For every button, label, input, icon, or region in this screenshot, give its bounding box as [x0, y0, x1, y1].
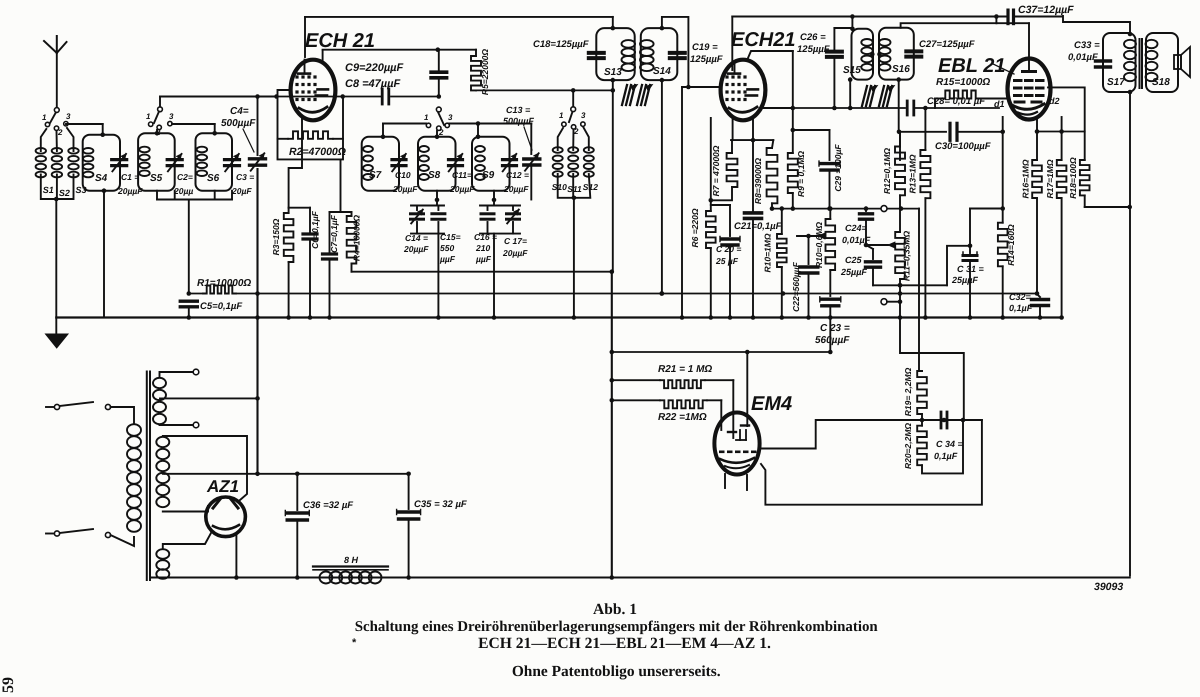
IF transformer S15	[843, 17, 873, 80]
svg-text:*: *	[352, 637, 357, 649]
svg-text:R15=1000Ω: R15=1000Ω	[936, 77, 990, 88]
wire EBL anode riser	[1028, 23, 1030, 59]
wire screen node line	[772, 208, 831, 210]
switch contact 3 (antenna)	[64, 112, 71, 126]
wire EBL d2 lead	[1048, 87, 1085, 160]
resistor R11	[895, 209, 911, 288]
capacitor C20	[711, 205, 742, 320]
capacitor C16	[474, 206, 520, 265]
tube EM4	[714, 413, 759, 475]
svg-text:0,01µF: 0,01µF	[1068, 52, 1098, 63]
wire band switch (oscillator) pole	[154, 97, 162, 124]
wire chassis bus	[56, 316, 1061, 318]
coil S1	[36, 129, 54, 195]
capacitor C7	[323, 212, 340, 320]
capacitor C15	[432, 206, 461, 265]
capacitor C32	[1009, 292, 1049, 320]
wire trimmer bank 2	[480, 191, 520, 320]
svg-text:C37=12µµF: C37=12µµF	[1018, 4, 1074, 16]
svg-text:R13=1MΩ: R13=1MΩ	[908, 154, 918, 193]
capacitor C27	[906, 39, 974, 57]
svg-text:R10=0,6MΩ: R10=0,6MΩ	[814, 222, 824, 268]
wire EM4 target lead	[759, 418, 982, 449]
wire tube2 plate to IF2	[763, 106, 905, 111]
coil S8	[418, 131, 456, 191]
svg-text:1: 1	[424, 113, 429, 122]
capacitor C37	[1008, 4, 1074, 24]
resistor R13	[908, 106, 931, 320]
wire oscillator top line	[160, 94, 277, 99]
transformer winding S (filament 1)	[153, 369, 199, 428]
svg-text:AZ1: AZ1	[206, 477, 239, 496]
svg-text:S13: S13	[604, 67, 622, 78]
svg-text:Abb. 1: Abb. 1	[593, 601, 637, 618]
switch contacts (input IF)	[559, 111, 586, 136]
svg-text:S1: S1	[43, 185, 54, 195]
svg-text:550: 550	[440, 243, 454, 253]
caption Abb. 1	[593, 601, 637, 618]
wire filament center tap	[160, 397, 258, 399]
resistor R12	[882, 132, 905, 209]
svg-text:R19= 2,2MΩ: R19= 2,2MΩ	[903, 367, 913, 416]
capacitor C8	[345, 78, 439, 104]
capacitor C14	[403, 206, 444, 255]
transformer winding HV	[156, 436, 247, 512]
svg-text:EBL 21: EBL 21	[938, 55, 1005, 77]
wire detector lower line	[873, 283, 947, 288]
svg-text:S9: S9	[482, 170, 495, 181]
wire B+ line	[165, 472, 411, 477]
resistor R21	[612, 364, 734, 438]
transformer core	[147, 372, 150, 581]
resistor R9	[788, 51, 806, 211]
svg-text:C 20 =: C 20 =	[716, 244, 741, 254]
wire C31 step line	[947, 246, 970, 285]
svg-text:R12=0,1MΩ: R12=0,1MΩ	[882, 148, 892, 194]
svg-text:R2=47000Ω: R2=47000Ω	[289, 146, 346, 158]
svg-text:C6=0,1µF: C6=0,1µF	[310, 210, 320, 249]
resistor R7	[711, 140, 738, 200]
wire S13 bottom riser	[611, 78, 616, 272]
svg-text:R18=100Ω: R18=100Ω	[1068, 157, 1078, 199]
wire AVC arrow to R10b	[797, 233, 825, 239]
svg-text:ECH21: ECH21	[731, 29, 795, 51]
wire HV center tap	[163, 473, 165, 475]
wire R20 bottom bracket	[922, 418, 965, 474]
label AZ1	[206, 477, 239, 496]
wire C23 line	[612, 350, 833, 355]
wire S4 bottom to bus	[102, 188, 107, 317]
wire R16 to C32	[1035, 198, 1040, 296]
capacitor C36	[285, 474, 353, 580]
svg-text:1: 1	[146, 112, 151, 121]
svg-text:Schaltung eines Dreiröhrenüber: Schaltung eines Dreiröhrenüberlagerungse…	[355, 619, 879, 635]
wire R11 bottom to bus	[898, 285, 903, 320]
IF transformer S16	[870, 28, 914, 80]
svg-text:25 µF: 25 µF	[715, 256, 739, 266]
switch contact 1 (antenna)	[42, 113, 50, 127]
switch pole (IF band)	[436, 107, 444, 125]
svg-text:R20=2,2MΩ: R20=2,2MΩ	[903, 423, 913, 469]
caption line 2	[355, 619, 879, 635]
svg-text:R16=1MΩ: R16=1MΩ	[1021, 159, 1031, 198]
resistor R3	[271, 118, 302, 320]
tube AZ1 internals	[213, 498, 239, 529]
svg-text:R7 = 47000Ω: R7 = 47000Ω	[711, 145, 721, 196]
capacitor C23	[815, 270, 850, 346]
mains switch upper	[46, 402, 111, 410]
capacitor C33	[1068, 40, 1111, 67]
wire EM4 cathode loop	[761, 420, 982, 505]
svg-text:20µµF: 20µµF	[392, 184, 418, 194]
transformer winding (rect filament)	[156, 533, 211, 579]
wire S14 top	[660, 17, 691, 89]
coil S3	[67, 128, 87, 195]
svg-text:C29 =100µF: C29 =100µF	[833, 144, 843, 192]
resistor R22	[612, 400, 722, 430]
capacitor C29	[791, 128, 844, 211]
tube ECH21 (first)	[291, 60, 336, 121]
svg-text:C 23 =: C 23 =	[820, 323, 850, 334]
wire C23 bottom link	[745, 318, 830, 427]
wire top line (second stage)	[732, 14, 1061, 19]
caption asterisk	[352, 637, 357, 649]
page number 59	[0, 677, 17, 693]
wire R19 feed riser	[918, 209, 920, 371]
resistor R14	[998, 117, 1016, 320]
core S15/S16	[862, 86, 895, 107]
svg-text:20µµF: 20µµF	[503, 184, 529, 194]
wire trimmer bank 1	[411, 191, 444, 320]
svg-text:R21 = 1 MΩ: R21 = 1 MΩ	[658, 364, 712, 375]
svg-text:S6: S6	[207, 173, 220, 184]
resistor R18	[1068, 157, 1090, 199]
svg-text:S16: S16	[892, 64, 910, 75]
svg-text:S7: S7	[369, 170, 382, 181]
svg-text:C33 =: C33 =	[1074, 40, 1100, 51]
switch pole (input IF)	[569, 88, 576, 122]
wire upper box to terminals	[900, 318, 964, 421]
resistor R2	[278, 131, 346, 158]
output transformer S17	[1103, 33, 1136, 92]
tube ECH21 (second) internals	[725, 61, 758, 112]
capacitor C22	[791, 236, 818, 320]
wire anode riser (second)	[731, 17, 733, 71]
trimmer capacitor C1	[112, 154, 144, 196]
svg-text:C19 =: C19 =	[692, 42, 718, 53]
wire B- frame line	[152, 576, 1130, 578]
svg-text:S14: S14	[653, 66, 671, 77]
svg-text:20µF: 20µF	[231, 186, 252, 196]
switch contacts (IF band)	[424, 113, 453, 137]
wire S13 riser to frame	[610, 272, 615, 580]
capacitor C17	[502, 206, 528, 259]
resistor R1	[197, 278, 251, 294]
capacitor C4 (padder)	[221, 106, 266, 171]
svg-text:µµF: µµF	[439, 254, 456, 264]
caption line 3	[478, 635, 771, 652]
svg-text:R5=22000Ω: R5=22000Ω	[480, 49, 490, 95]
resistor R17	[1035, 117, 1085, 199]
wire S16 top	[901, 17, 1029, 28]
resistor R8	[753, 140, 777, 211]
capacitor C28	[907, 96, 999, 115]
output transformer S18	[1146, 33, 1179, 92]
trimmer capacitor C10	[392, 154, 418, 194]
svg-text:R4=16000Ω: R4=16000Ω	[352, 215, 362, 261]
wire top line (first stage)	[305, 16, 613, 18]
wire AVC line A	[352, 269, 615, 274]
resistor R15	[935, 77, 1008, 108]
svg-text:R6 =220Ω: R6 =220Ω	[690, 208, 700, 247]
label d1 d2	[994, 96, 1060, 109]
wire tube2 pins	[709, 118, 774, 203]
coil S2	[52, 131, 70, 198]
svg-text:S5: S5	[150, 173, 163, 184]
core S13/S14	[622, 85, 653, 106]
resistor R19	[903, 367, 927, 420]
svg-text:500µµF: 500µµF	[221, 118, 256, 129]
svg-text:C8 =47µµF: C8 =47µµF	[345, 78, 400, 90]
tube EBL21	[1008, 59, 1051, 120]
svg-text:C36 =32 µF: C36 =32 µF	[303, 500, 353, 511]
svg-text:S2: S2	[59, 188, 70, 198]
coil S12	[583, 128, 598, 193]
svg-text:C3 =: C3 =	[236, 172, 254, 182]
resistor R16	[1021, 118, 1042, 199]
svg-text:µµF: µµF	[475, 254, 492, 264]
trimmer capacitor C11	[449, 154, 476, 194]
tube ECH21 (second)	[721, 60, 766, 121]
svg-text:3: 3	[581, 111, 586, 120]
resistor R5	[471, 49, 490, 95]
svg-text:25µµF: 25µµF	[840, 267, 867, 277]
core S17/S18	[1140, 39, 1143, 88]
svg-text:ECH 21: ECH 21	[305, 30, 375, 52]
IF transformer S14	[640, 28, 677, 80]
svg-text:3: 3	[169, 112, 174, 121]
coil S9	[472, 137, 510, 191]
svg-text:S18: S18	[1152, 77, 1170, 88]
capacitor C21	[734, 140, 782, 320]
wire R18 to output return	[1085, 195, 1132, 209]
svg-text:20µµF: 20µµF	[502, 248, 528, 258]
wire S16 bottom riser	[896, 77, 901, 160]
tube ECH21 internals (grid/cathode)	[295, 60, 328, 113]
wire S13 top	[611, 17, 616, 31]
svg-text:R10=1MΩ: R10=1MΩ	[763, 233, 773, 272]
capacitor C30	[899, 123, 1005, 152]
transformer primary	[111, 407, 142, 546]
svg-text:C 17=: C 17=	[504, 236, 527, 246]
svg-text:125µµF: 125µµF	[690, 54, 723, 65]
svg-text:25µµF: 25µµF	[951, 275, 978, 285]
svg-text:C 34 =: C 34 =	[936, 439, 964, 449]
svg-text:ECH 21—ECH 21—EBL 21—EM 4—AZ 1: ECH 21—ECH 21—EBL 21—EM 4—AZ 1.	[478, 635, 771, 652]
svg-text:C2=: C2=	[177, 172, 193, 182]
svg-text:C1 =: C1 =	[121, 172, 139, 182]
tube AZ1	[206, 497, 246, 537]
capacitor C34	[934, 412, 964, 461]
svg-text:1: 1	[559, 111, 564, 120]
coil S7	[362, 137, 399, 191]
svg-text:d1: d1	[994, 99, 1005, 109]
svg-text:Ohne Patentobligo unsererseits: Ohne Patentobligo unsererseits.	[512, 663, 721, 680]
antenna	[44, 36, 67, 112]
svg-text:C9=220µµF: C9=220µµF	[345, 62, 404, 74]
coil S5	[138, 130, 175, 191]
svg-text:S11: S11	[567, 184, 582, 194]
trimmer capacitor C3	[225, 154, 255, 196]
svg-text:39093: 39093	[1094, 581, 1123, 593]
svg-text:C25: C25	[845, 255, 863, 265]
svg-text:C13 =: C13 =	[506, 105, 531, 115]
resistor R10 (0.6M volume)	[814, 206, 835, 270]
svg-text:500µµF: 500µµF	[503, 116, 534, 126]
trimmer capacitor C12	[503, 154, 530, 194]
svg-text:C21=0,1µF: C21=0,1µF	[734, 221, 782, 232]
label EM4	[751, 393, 792, 415]
wire C5 to bus	[187, 307, 192, 320]
wire R14/C31 branch	[968, 209, 1003, 249]
svg-text:C30=100µµF: C30=100µµF	[935, 141, 991, 152]
svg-text:R22 =1MΩ: R22 =1MΩ	[658, 412, 707, 423]
tube EM4 internals	[719, 426, 757, 469]
wire AVC terminal line	[830, 206, 919, 211]
svg-text:R3=150Ω: R3=150Ω	[271, 218, 281, 255]
svg-text:0,1µF: 0,1µF	[934, 451, 958, 461]
svg-text:R9 = 0,1MΩ: R9 = 0,1MΩ	[796, 151, 806, 197]
terminal (pickup)	[881, 299, 902, 305]
capacitor C26	[797, 28, 852, 108]
wire S10-S12 common	[558, 174, 591, 320]
switch contact 2 (antenna)	[54, 126, 63, 137]
wire B+ riser (C4 line)	[255, 97, 260, 477]
svg-text:C24=: C24=	[845, 223, 868, 233]
wire S6 feed	[172, 124, 217, 136]
wire output feed	[1063, 16, 1132, 36]
resistor R20	[903, 420, 927, 469]
label ECH 21 (first)	[305, 30, 375, 52]
coil S10	[552, 128, 567, 192]
capacitor C35	[397, 474, 467, 580]
choke 8H	[313, 555, 388, 584]
wire tube2 screen lead	[748, 51, 793, 58]
wire grid line g1	[274, 94, 381, 99]
wire S17 return	[1128, 90, 1133, 576]
capacitor C9	[345, 50, 447, 99]
wire grid node to tube2	[680, 87, 721, 320]
coil S4	[83, 135, 120, 191]
svg-text:C35 = 32 µF: C35 = 32 µF	[414, 499, 467, 510]
label ECH21 (second)	[731, 29, 795, 51]
svg-text:C22=560µµF: C22=560µµF	[791, 261, 801, 312]
capacitor C19	[670, 42, 723, 65]
wire S5-S6 bottom bracket	[157, 191, 232, 294]
wire R5 bottom line	[476, 88, 615, 93]
switch contacts 1-2-3 (band)	[146, 112, 174, 137]
svg-text:1: 1	[42, 113, 47, 122]
svg-text:3: 3	[66, 112, 71, 121]
tube EBL21 internals	[1012, 59, 1045, 115]
svg-text:C11=: C11=	[452, 170, 472, 180]
svg-text:C5=0,1µF: C5=0,1µF	[200, 301, 242, 312]
wire anode top-left riser	[304, 17, 306, 57]
wire S15 bottom	[848, 77, 853, 108]
ground symbol	[46, 318, 69, 349]
capacitor C13	[503, 105, 540, 200]
capacitor C25	[840, 245, 881, 285]
svg-text:20µµF: 20µµF	[403, 244, 429, 254]
wire band feed S4	[66, 124, 105, 137]
svg-text:R11=0,35MΩ: R11=0,35MΩ	[902, 231, 912, 282]
capacitor C31	[951, 246, 985, 320]
wire oscillator anode line	[323, 47, 476, 61]
svg-text:S8: S8	[428, 170, 441, 181]
svg-text:EM4: EM4	[751, 393, 792, 415]
svg-text:C7=0,1µF: C7=0,1µF	[329, 214, 339, 253]
svg-text:C27=125µµF: C27=125µµF	[919, 39, 975, 50]
wire C24 arrow to R11	[864, 242, 895, 248]
wire antenna switch arm	[50, 113, 56, 124]
resistor R2 box	[278, 90, 344, 159]
coil S11	[567, 130, 582, 195]
speaker	[1174, 47, 1190, 77]
svg-text:125µµF: 125µµF	[797, 44, 830, 55]
IF transformer S13	[596, 28, 635, 80]
capacitor C18	[533, 39, 604, 58]
trimmer capacitor C2	[167, 154, 193, 196]
caption Ohne Patentobligo	[512, 663, 721, 680]
figure number 39093	[1094, 581, 1123, 593]
capacitor C5	[180, 291, 242, 312]
svg-text:210: 210	[475, 243, 490, 253]
resistor R6	[690, 200, 716, 320]
svg-text:C26 =: C26 =	[800, 32, 826, 43]
wire line B (AVC return)	[189, 291, 1037, 296]
wire S7 feed	[381, 124, 426, 140]
svg-text:S4: S4	[95, 173, 108, 184]
svg-text:2: 2	[57, 128, 63, 137]
wire AZ1 cathode	[234, 534, 239, 580]
wire S14 bottom riser	[660, 78, 665, 296]
svg-text:R14=160Ω: R14=160Ω	[1006, 224, 1016, 266]
svg-text:S10: S10	[552, 182, 567, 192]
resistor R4	[330, 160, 362, 272]
resistor R10 (1M)	[763, 206, 787, 320]
terminal (AVC)	[881, 206, 887, 212]
svg-text:560µµF: 560µµF	[815, 335, 850, 346]
svg-text:20µµ: 20µµ	[173, 186, 193, 196]
svg-text:C18=125µµF: C18=125µµF	[533, 39, 589, 50]
svg-text:R8=39000Ω: R8=39000Ω	[753, 158, 763, 204]
wire S9/C13 feed	[449, 121, 531, 139]
svg-text:R17=1MΩ: R17=1MΩ	[1045, 159, 1055, 198]
svg-text:S17: S17	[1107, 77, 1125, 88]
svg-text:0,1µF: 0,1µF	[1009, 303, 1033, 313]
svg-text:R1=10000Ω: R1=10000Ω	[197, 278, 251, 289]
svg-text:C10: C10	[395, 170, 411, 180]
coil S6	[196, 133, 233, 190]
capacitor C24	[842, 206, 873, 245]
mains switch lower	[46, 529, 111, 538]
svg-text:3: 3	[448, 113, 453, 122]
svg-text:C4=: C4=	[230, 106, 249, 117]
capacitor C6	[289, 208, 320, 320]
svg-text:C 31 =: C 31 =	[957, 264, 985, 274]
svg-text:59: 59	[0, 677, 17, 693]
label EBL 21	[938, 55, 1014, 77]
